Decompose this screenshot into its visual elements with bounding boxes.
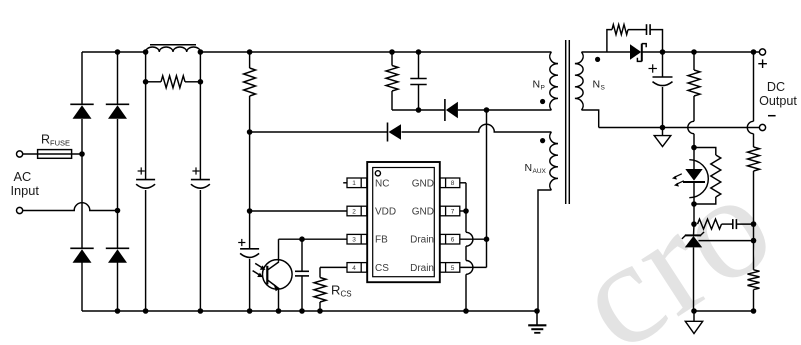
node C5 bottom (299, 308, 305, 314)
node L1 right top (198, 49, 204, 55)
wire LED bias bottom (694, 197, 716, 204)
label C2 polarity + (192, 167, 199, 174)
transformer secondary Ns (575, 52, 583, 110)
label DC Output (759, 80, 797, 108)
svg-text:4: 4 (352, 265, 356, 272)
wire snubber sec mid (628, 29, 647, 31)
wire pin6 drain (460, 238, 487, 240)
svg-text:NC: NC (375, 178, 389, 189)
node load R top (691, 49, 697, 55)
wire pin1 stub (343, 182, 347, 184)
svg-text:1: 1 (352, 180, 356, 187)
wire DC bus top rail (82, 51, 551, 53)
svg-text:DC: DC (767, 80, 785, 94)
node drain junction (484, 107, 490, 113)
node bridge top leg2 (115, 49, 121, 55)
resistor R2 startup (244, 68, 256, 96)
node GND pins junction (463, 208, 469, 214)
svg-text:GND: GND (412, 207, 434, 218)
svg-text:Output: Output (759, 94, 797, 108)
node rectifier output junction (660, 49, 666, 55)
node VDD aux junction (247, 129, 253, 135)
transformer aux winding Naux (550, 132, 558, 190)
diode D4 (106, 248, 129, 262)
wire Ns top to rectifier (582, 51, 631, 53)
transistor U3 TL431 shunt (682, 232, 704, 248)
node TL431 bottom junction (691, 308, 697, 314)
label C1 polarity + (138, 167, 145, 174)
wire hop divider over return (747, 121, 753, 133)
wire pin3 FB (279, 238, 348, 240)
inductor L1 core bar (150, 44, 196, 46)
svg-text:8: 8 (451, 180, 455, 187)
capacitor C2 (191, 180, 210, 189)
svg-text:N: N (533, 79, 541, 91)
node R1 right (198, 79, 204, 85)
node C2 bottom (198, 308, 204, 314)
label plus (758, 59, 767, 68)
inductor L1 (146, 47, 201, 52)
wire snubber sec right (650, 30, 662, 52)
U1 left pin boxes (347, 178, 367, 272)
svg-text:5: 5 (451, 265, 455, 272)
svg-text:Input: Input (11, 183, 40, 198)
capacitor C1 (136, 180, 155, 189)
diode D2 (106, 104, 129, 119)
svg-text:S: S (601, 85, 606, 92)
node Naux return bottom (534, 308, 540, 314)
node Ns polarity dot (595, 57, 600, 62)
node LED top junction (691, 145, 697, 151)
node VDD pin junction (247, 208, 253, 214)
transformer core (566, 40, 570, 204)
node FB cap junction (299, 236, 305, 242)
svg-text:3: 3 (352, 237, 356, 244)
wire Ns bottom jog (582, 110, 599, 128)
node clamp R top (389, 49, 395, 55)
wire secondary return (599, 127, 760, 129)
resistor R9 divider upper (748, 147, 760, 171)
wire load branch (693, 52, 695, 148)
wire hop GND over pin5 (466, 261, 473, 275)
svg-text:AC: AC (14, 169, 32, 184)
U1 pin labels right (410, 178, 434, 274)
wire drain riser (486, 110, 488, 239)
wire hop AC neutral over bridge leg (74, 203, 90, 211)
resistor R5 snubber sec (612, 25, 628, 35)
wire feedback bottom link (694, 310, 754, 312)
wire hop GND over pin6 (466, 232, 473, 246)
svg-text:CS: CS (375, 263, 389, 274)
wire startup to VDD node (249, 52, 251, 311)
wire secondary top rail (642, 51, 760, 53)
DC output terminal - (759, 124, 765, 130)
wire clamp R branch (391, 52, 393, 110)
label Naux (525, 162, 547, 175)
wire snubber sec left (607, 30, 612, 52)
wire GND line down (465, 211, 467, 311)
svg-text:R: R (41, 133, 50, 147)
capacitor C4 clamp (410, 79, 426, 85)
svg-text:VDD: VDD (375, 207, 396, 218)
svg-text:CS: CS (341, 290, 352, 299)
resistor R7 LED bias (711, 155, 721, 197)
wire FB cap branch (301, 239, 303, 311)
resistor R3 clamp (386, 66, 398, 92)
wire clamp C branch (418, 52, 420, 110)
diode D5 clamp (445, 99, 458, 121)
wire pin2 VDD (250, 210, 347, 212)
opto LED D8 (683, 160, 708, 198)
op-amp U1 controller body (367, 162, 440, 282)
svg-text:2: 2 (352, 208, 356, 215)
wire aux rectifier line (250, 131, 552, 133)
svg-text:N: N (593, 79, 601, 91)
label C7 polarity + (649, 64, 657, 72)
wire pin4 CS (320, 266, 347, 268)
wire Naux return (538, 190, 551, 311)
U1 pin numbers right (451, 180, 455, 272)
diode D3 (70, 248, 93, 262)
U1 pin-1 indicator (375, 171, 380, 176)
node Np polarity dot (540, 99, 545, 104)
node bridge bottom leg2 (115, 308, 121, 314)
AC input terminal T1 (17, 151, 23, 157)
wire output cap branch (662, 52, 664, 128)
label RCS (331, 283, 352, 299)
node drain pins junction (484, 236, 490, 242)
node comp junction (691, 221, 697, 235)
svg-text:Drain: Drain (410, 263, 434, 274)
label RFUSE (41, 133, 70, 148)
node RCS bottom (317, 308, 323, 314)
ground TL431 symbol (685, 311, 702, 334)
AC input terminal T2 (17, 207, 23, 213)
wire primary ground rail (82, 310, 537, 312)
wire hop load over return (688, 121, 694, 133)
node Naux polarity dot (540, 138, 545, 143)
wire AC neutral (23, 210, 118, 212)
svg-text:N: N (525, 162, 533, 174)
diode D6 aux rectifier (388, 123, 402, 142)
label minus (768, 115, 776, 117)
resistor R10 divider lower (748, 270, 760, 290)
wire pin8 to GND line (460, 183, 466, 211)
node GND line bottom (463, 308, 469, 314)
svg-text:P: P (541, 85, 545, 92)
wire opto collector riser (278, 239, 280, 261)
node divider top (751, 49, 757, 55)
node AC-bridge junction (115, 208, 121, 214)
node L1 left top (143, 49, 149, 55)
wire bridge leg 1 (81, 52, 83, 311)
D8 light arrows (672, 174, 684, 187)
wire LED branch (693, 148, 695, 225)
label Np (533, 79, 545, 92)
diode D7 output rectifier (630, 44, 646, 62)
capacitor C8 comp (733, 219, 737, 229)
resistor R4 RCS (314, 278, 326, 303)
DC output terminal + (759, 49, 765, 55)
wire CS branch (319, 267, 321, 311)
U1 pin labels left (375, 178, 396, 274)
label Ns (593, 79, 606, 92)
svg-text:FUSE: FUSE (50, 139, 70, 148)
U2 light arrows (253, 263, 266, 277)
capacitor C5 FB (295, 271, 309, 276)
resistor R1 parallel with L1 (146, 76, 201, 88)
wire TL431 ref (699, 240, 754, 242)
wire pin5 drain (460, 239, 487, 267)
resistor R8 comp (698, 219, 722, 229)
label AC Input (11, 169, 40, 198)
diode D1 (70, 104, 93, 119)
ground chassis symbol (528, 311, 546, 333)
transformer primary Np (550, 52, 558, 110)
node clamp C top (416, 49, 422, 55)
node C3 bottom (247, 308, 253, 314)
node fuse-bridge junction (79, 151, 85, 157)
wire pin7 stub (460, 210, 466, 212)
wire TL431 anode (693, 247, 695, 311)
node LED bottom junction (691, 201, 697, 207)
svg-text:GND: GND (412, 178, 434, 189)
U1 pin numbers left (352, 180, 356, 272)
svg-text:AUX: AUX (533, 168, 547, 175)
svg-text:R: R (331, 283, 340, 298)
wire divider line (753, 52, 755, 311)
wire opto emitter (278, 288, 280, 311)
wire comp right (736, 223, 753, 225)
svg-text:Drain: Drain (410, 235, 434, 246)
svg-text:6: 6 (451, 237, 455, 244)
wire comp mid (722, 223, 733, 225)
label C3 polarity + (238, 239, 245, 246)
wire clamp bottom line (392, 109, 551, 111)
resistor R6 upper (688, 70, 700, 96)
capacitor C3 VDD (240, 249, 259, 258)
svg-text:FB: FB (375, 235, 388, 246)
capacitor C6 snubber sec (647, 24, 651, 35)
node opto emitter bottom (276, 308, 282, 314)
ground sec symbol (654, 128, 671, 147)
wire hop aux line over drain (479, 124, 495, 132)
wire LED bias top (694, 148, 716, 156)
wire bulk cap C2 branch (199, 52, 201, 311)
svg-text:7: 7 (451, 208, 455, 215)
node divider bottom (751, 308, 757, 314)
node output cap bottom (660, 125, 666, 131)
node clamp C bottom (416, 107, 422, 113)
wire bridge leg 2 (117, 52, 119, 311)
node R1 left (143, 79, 149, 85)
decorative watermark (548, 139, 801, 345)
fuse RFUSE (23, 150, 82, 159)
node comp divider junction (751, 221, 757, 227)
node startup resistor top (247, 49, 253, 55)
U1 right pin boxes (440, 178, 460, 272)
node C1 bottom (143, 308, 149, 314)
opto-coupler U2 phototransistor (263, 260, 293, 292)
wire bulk cap C1 branch (145, 52, 147, 311)
capacitor C7 output (653, 77, 673, 86)
node ref divider junction (751, 238, 757, 244)
